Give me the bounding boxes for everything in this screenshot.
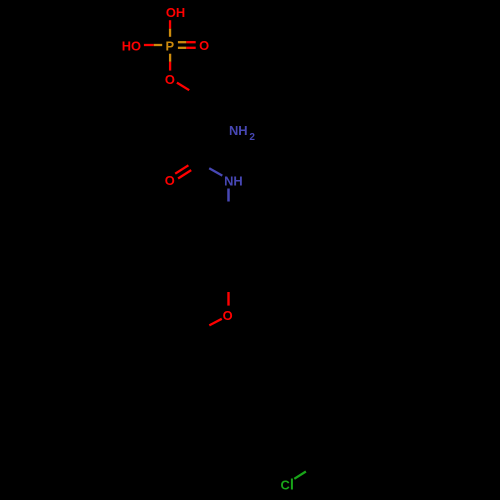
svg-text:O: O [165, 173, 175, 188]
svg-text:2: 2 [249, 132, 255, 143]
svg-text:O: O [223, 308, 233, 323]
svg-text:NH: NH [229, 123, 248, 138]
svg-text:O: O [165, 72, 175, 87]
svg-text:NH: NH [224, 173, 243, 188]
svg-text:HO: HO [122, 39, 141, 54]
svg-text:P: P [165, 38, 174, 53]
svg-text:Cl: Cl [281, 478, 294, 494]
svg-text:O: O [199, 38, 209, 53]
svg-text:OH: OH [166, 5, 185, 20]
